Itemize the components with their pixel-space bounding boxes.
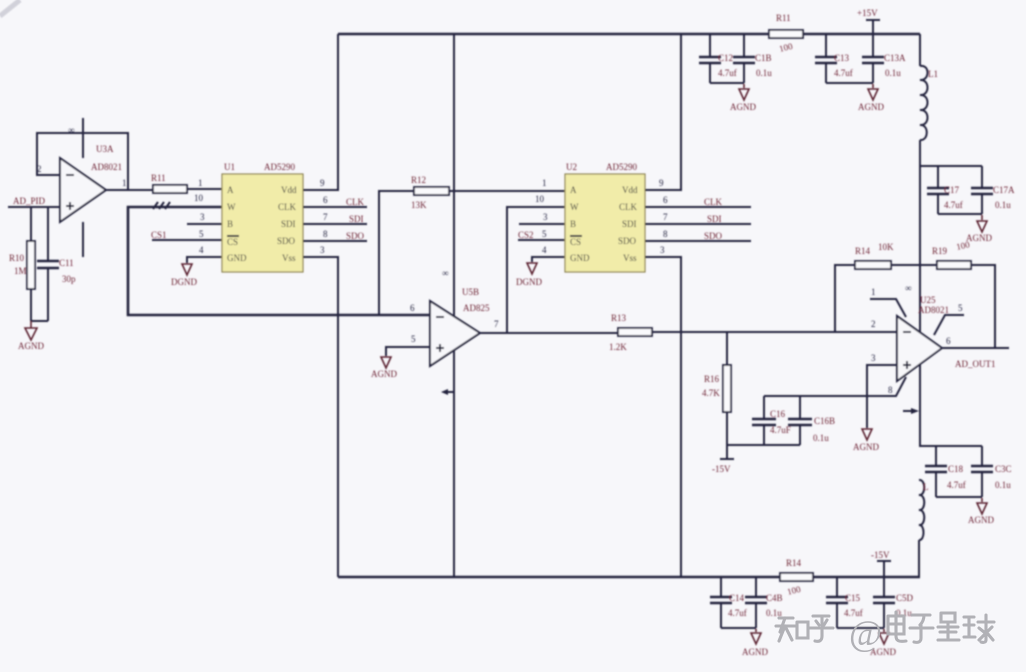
svg-text:CS2: CS2	[518, 230, 534, 240]
wire U3A feedback loop	[37, 133, 128, 190]
wire U25 pin3	[867, 365, 897, 396]
ground AGND left	[25, 321, 37, 340]
svg-text:C14: C14	[729, 593, 745, 603]
resistor R12	[379, 191, 565, 315]
wire U5B output to R13	[480, 332, 618, 334]
svg-text:AD8021: AD8021	[918, 305, 949, 315]
svg-text:-15V: -15V	[871, 550, 890, 560]
svg-text:U25: U25	[920, 295, 936, 305]
svg-text:7: 7	[663, 212, 668, 222]
wire U1 pin B stub	[187, 223, 222, 225]
svg-text:GND: GND	[570, 253, 590, 263]
wire U2 Vdd to top rail	[645, 34, 681, 190]
wire U3A output	[106, 189, 153, 191]
svg-text:A: A	[570, 185, 577, 195]
svg-text:SDI: SDI	[707, 214, 722, 224]
svg-text:C12: C12	[718, 53, 733, 63]
svg-text:∞: ∞	[442, 268, 448, 278]
svg-text:0.1u: 0.1u	[995, 480, 1011, 490]
svg-text:1: 1	[542, 178, 547, 188]
wire top +15V rail	[338, 33, 920, 36]
svg-text:1M: 1M	[14, 266, 27, 276]
wire bottom -15V rail	[338, 576, 920, 579]
power +15V	[866, 20, 880, 34]
capacitor C16	[763, 396, 765, 445]
svg-text:4.7uf: 4.7uf	[947, 480, 966, 490]
wire join C14/C14A	[721, 627, 756, 629]
wire U25 pin8 node	[764, 377, 906, 396]
wire U1 SDI	[303, 223, 367, 225]
resistor R11	[153, 185, 187, 193]
op-amp U5B	[430, 301, 480, 366]
wire U2 SDO	[645, 240, 751, 242]
wire U1 CLK	[303, 206, 367, 208]
node AD_PID input wire	[8, 206, 60, 208]
svg-text:W: W	[570, 202, 579, 212]
capacitor C16A	[799, 396, 801, 445]
glyph 球	[964, 615, 994, 642]
capacitor C14	[720, 577, 722, 628]
svg-text:R11: R11	[776, 13, 791, 23]
wire U2 Vss to bottom rail	[645, 257, 681, 577]
svg-text:1.2K: 1.2K	[609, 342, 627, 352]
resistor R10	[30, 207, 32, 321]
power -15V mid	[720, 445, 734, 459]
svg-text:4.7uf: 4.7uf	[718, 68, 737, 78]
svg-text:B: B	[227, 219, 233, 229]
svg-text:R16: R16	[704, 374, 720, 384]
svg-text:+15V: +15V	[857, 8, 878, 18]
svg-text:AD5290: AD5290	[606, 162, 637, 172]
svg-text:CLK: CLK	[278, 202, 297, 212]
svg-text:C15: C15	[845, 593, 861, 603]
svg-text:5: 5	[958, 303, 963, 313]
svg-text:SDI: SDI	[281, 219, 296, 229]
op-amp U3A	[82, 118, 84, 257]
wire R13 to U25 -input	[652, 331, 897, 333]
svg-text:U1: U1	[224, 162, 235, 172]
svg-text:U2: U2	[566, 162, 577, 172]
svg-text:1: 1	[122, 178, 127, 188]
wire join C17/C17A	[938, 213, 982, 215]
svg-text:AD825: AD825	[463, 303, 490, 313]
svg-text:3: 3	[200, 212, 205, 222]
svg-text:4.7K: 4.7K	[702, 388, 720, 398]
glyph 电	[888, 612, 906, 641]
svg-text:R12: R12	[411, 175, 426, 185]
resistor R11 top	[769, 30, 803, 38]
svg-text:30p: 30p	[62, 274, 76, 284]
glyph 子	[910, 615, 933, 642]
svg-text:@: @	[849, 613, 882, 653]
svg-text:5: 5	[199, 229, 204, 239]
svg-text:CS: CS	[227, 237, 238, 247]
svg-text:C4B: C4B	[766, 593, 783, 603]
wire U2 pin CS	[518, 239, 565, 241]
svg-text:C16B: C16B	[814, 416, 835, 426]
svg-text:C11: C11	[59, 258, 74, 268]
svg-text:A: A	[227, 185, 234, 195]
wire R11 to U1 pin A	[187, 188, 222, 190]
capacitor C15A	[883, 577, 885, 628]
svg-text:Vss: Vss	[623, 253, 637, 263]
svg-text:0.1u: 0.1u	[756, 68, 772, 78]
ground DGND U2	[527, 263, 537, 274]
svg-text:2: 2	[37, 164, 42, 174]
capacitor C11	[47, 207, 49, 321]
svg-text:7: 7	[494, 319, 499, 329]
capacitor C13A	[872, 34, 874, 83]
svg-text:4.7uf: 4.7uf	[834, 68, 853, 78]
wire U1 pin GND	[187, 257, 222, 263]
capacitor C18A	[981, 446, 983, 497]
svg-text:0.1u: 0.1u	[885, 68, 901, 78]
wire L2 to bottom rail	[918, 540, 920, 577]
capacitor C15	[836, 577, 838, 628]
wire C18 branch	[919, 445, 982, 447]
svg-text:2: 2	[871, 319, 876, 329]
svg-text:4.7uf: 4.7uf	[944, 200, 963, 210]
wire U1 Vss to bottom rail	[303, 257, 338, 577]
svg-text:6: 6	[323, 195, 328, 205]
svg-text:4: 4	[199, 245, 204, 255]
svg-text:U3A: U3A	[96, 144, 114, 154]
svg-text:AGND: AGND	[968, 515, 994, 525]
svg-text:R11: R11	[151, 173, 166, 183]
ground AGND top2	[868, 84, 878, 100]
small arrow V- of U25	[903, 410, 913, 412]
wire U5B +input to AGND	[386, 347, 430, 356]
glyph 知	[776, 618, 795, 641]
wire join C13/C13A	[826, 82, 873, 84]
glyph 乎	[810, 616, 833, 641]
svg-text:B: B	[570, 219, 576, 229]
svg-text:1: 1	[198, 178, 203, 188]
wire U2 pin GND	[532, 257, 565, 262]
resistor R16	[726, 332, 728, 445]
capacitor C17	[937, 166, 939, 214]
watermark 知乎 @电子星球	[776, 612, 994, 642]
svg-text:5: 5	[542, 229, 547, 239]
wire C17 branch	[920, 165, 982, 167]
svg-text:DGND: DGND	[171, 277, 197, 287]
svg-text:8: 8	[663, 229, 668, 239]
wire join R10/C11 bottoms	[31, 320, 48, 322]
inductor L2	[919, 480, 924, 540]
wire U2 CLK	[645, 206, 751, 208]
resistor R19	[919, 265, 995, 348]
svg-text:CLK: CLK	[619, 202, 638, 212]
svg-text:AGND: AGND	[371, 369, 397, 379]
wire join C12/C12A	[710, 82, 744, 84]
glyph 星	[938, 613, 959, 640]
svg-text:AGND: AGND	[18, 341, 44, 351]
svg-text:C17A: C17A	[993, 185, 1015, 195]
svg-text:AGND: AGND	[858, 102, 884, 112]
resistor R14 bottom	[780, 573, 813, 581]
svg-text:10: 10	[535, 194, 545, 204]
svg-text:4.7uf: 4.7uf	[728, 608, 747, 618]
IC U1 AD5290	[222, 174, 303, 272]
svg-text:0.1u: 0.1u	[813, 433, 829, 443]
wire U25 output	[942, 347, 1009, 349]
ground AGND right1	[977, 215, 987, 232]
wire U25 pin5 comp stub	[934, 315, 964, 335]
svg-text:5: 5	[411, 334, 416, 344]
ground DGND U1	[182, 264, 192, 275]
ground AGND U5B	[381, 357, 391, 368]
wire U25 pin1 stub	[870, 299, 906, 317]
svg-text:-15V: -15V	[712, 464, 731, 474]
svg-text:C1B: C1B	[755, 53, 772, 63]
svg-text:∞: ∞	[905, 283, 911, 293]
ground AGND bottom1	[751, 629, 761, 644]
svg-text:100: 100	[955, 239, 971, 252]
svg-text:3: 3	[543, 212, 548, 222]
wire U2 pin B stub	[519, 223, 565, 225]
capacitor C12	[709, 34, 711, 83]
svg-text:C3C: C3C	[995, 464, 1012, 474]
svg-text:AGND: AGND	[966, 233, 992, 243]
op-amp U25	[897, 316, 942, 381]
svg-text:3: 3	[320, 245, 325, 255]
wire U1 Vdd to top rail	[303, 34, 338, 190]
ground AGND bottom2	[879, 629, 889, 644]
capacitor C18	[935, 446, 937, 497]
wire U2 W pin down to output	[507, 207, 565, 333]
wire U1 W pin to lower bus	[128, 207, 430, 315]
svg-text:4: 4	[542, 245, 547, 255]
svg-text:AD_OUT1: AD_OUT1	[955, 359, 996, 369]
svg-text:6: 6	[410, 303, 415, 313]
svg-text:SDO: SDO	[277, 236, 296, 246]
svg-text:CS1: CS1	[151, 230, 167, 240]
ground AGND right2	[977, 498, 987, 514]
svg-text:Vdd: Vdd	[281, 185, 297, 195]
resistor R13	[618, 328, 652, 336]
capacitor C13	[825, 34, 827, 83]
svg-text:SDO: SDO	[346, 231, 365, 241]
svg-text:CS: CS	[570, 237, 581, 247]
svg-text:R14: R14	[786, 558, 802, 568]
wire join C18/C18A	[936, 496, 982, 498]
svg-text:13K: 13K	[411, 200, 427, 210]
small arrow V- of U5B	[444, 391, 454, 393]
svg-text:R19: R19	[932, 246, 948, 256]
wire U1 pin CS	[152, 239, 222, 241]
capacitor C17A	[981, 166, 983, 214]
svg-text:9: 9	[320, 178, 325, 188]
svg-text:SDO: SDO	[704, 231, 723, 241]
svg-text:4.7uF: 4.7uF	[770, 425, 791, 435]
ground AGND top1	[739, 84, 749, 100]
svg-text:SDI: SDI	[622, 219, 637, 229]
svg-text:3: 3	[871, 353, 876, 363]
svg-text:CLK: CLK	[704, 197, 723, 207]
wire C16 bottom join	[727, 444, 800, 446]
wire U1 SDO	[303, 240, 367, 242]
wire slashes on W wire	[153, 202, 170, 209]
svg-text:10K: 10K	[878, 242, 894, 252]
capacitor C14A	[755, 577, 757, 628]
svg-text:AGND: AGND	[742, 647, 768, 657]
svg-text:W: W	[227, 202, 236, 212]
svg-text:8: 8	[888, 385, 893, 395]
svg-text:R10: R10	[9, 253, 25, 263]
top-left corner shade	[0, 0, 20, 16]
svg-text:Vss: Vss	[282, 253, 296, 263]
svg-text:C5D: C5D	[896, 593, 914, 603]
svg-text:C18: C18	[948, 464, 964, 474]
svg-text:L1: L1	[928, 69, 938, 79]
svg-text:1: 1	[871, 287, 876, 297]
svg-text:AD5290: AD5290	[264, 162, 295, 172]
wire U2 SDI	[645, 223, 751, 225]
svg-text:C16: C16	[770, 409, 786, 419]
svg-text:3: 3	[660, 245, 665, 255]
svg-text:DGND: DGND	[516, 277, 542, 287]
svg-text:L: L	[923, 482, 929, 492]
svg-text:C13: C13	[834, 53, 850, 63]
ground AGND U25	[866, 396, 868, 428]
svg-text:SDI: SDI	[349, 214, 364, 224]
svg-text:6: 6	[663, 195, 668, 205]
svg-text:AD_PID: AD_PID	[13, 196, 46, 206]
wire join C15/C15A	[837, 627, 884, 629]
svg-text:AGND: AGND	[853, 442, 879, 452]
IC U2 AD5290	[565, 174, 645, 272]
svg-text:R13: R13	[611, 313, 627, 323]
svg-text:GND: GND	[227, 253, 247, 263]
op-amp U5B power rails	[453, 34, 455, 577]
svg-text:9: 9	[659, 178, 664, 188]
svg-text:CLK: CLK	[346, 197, 365, 207]
svg-text:R14: R14	[855, 246, 871, 256]
svg-text:6: 6	[946, 336, 951, 346]
svg-text:U5B: U5B	[462, 287, 479, 297]
svg-text:100: 100	[786, 584, 802, 597]
svg-text:100: 100	[778, 41, 794, 54]
power -15V bottom	[877, 561, 891, 577]
resistor R14 feedback	[835, 265, 919, 331]
svg-text:SDO: SDO	[618, 236, 637, 246]
svg-text:Vdd: Vdd	[622, 185, 638, 195]
svg-text:8: 8	[323, 229, 328, 239]
svg-text:7: 7	[323, 212, 328, 222]
wire right rail	[919, 140, 921, 446]
svg-text:AD8021: AD8021	[91, 162, 122, 172]
svg-text:10: 10	[194, 193, 204, 203]
svg-text:C13A: C13A	[884, 53, 906, 63]
inductor L1	[920, 34, 928, 140]
capacitor C12A	[743, 34, 745, 83]
svg-text:C17: C17	[944, 185, 960, 195]
svg-text:0.1u: 0.1u	[995, 200, 1011, 210]
svg-text:AGND: AGND	[730, 102, 756, 112]
